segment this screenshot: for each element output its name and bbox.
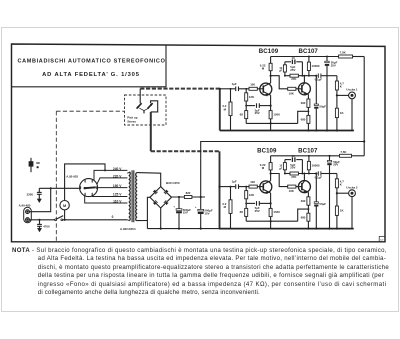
piezo element left <box>137 103 142 108</box>
node: divider mid 1 <box>245 105 247 107</box>
wire: motor top to 240V tap <box>65 164 105 201</box>
svg-text:25V: 25V <box>290 166 295 170</box>
svg-text:25V: 25V <box>331 63 336 67</box>
svg-text:100: 100 <box>250 180 255 184</box>
selector tap wire 110V <box>85 195 128 203</box>
resistor 0.22M 2 <box>269 163 272 170</box>
selector tap wire 220V <box>97 178 128 184</box>
resistor 1500 2 <box>270 193 272 208</box>
svg-text:B30 C250: B30 C250 <box>166 181 180 185</box>
svg-text:CAMBIADISCHI AUTOMATICO STEREO: CAMBIADISCHI AUTOMATICO STEREOFONICO <box>17 59 165 65</box>
pick-up stereo dashed box <box>125 95 167 125</box>
svg-text:25V: 25V <box>255 111 260 115</box>
fuse / suppressor symbol <box>30 158 32 172</box>
resistor 10K interstage 2 <box>288 185 296 188</box>
node: emitter divider mid 2 <box>307 205 309 213</box>
resistor 2.2M 1 <box>230 88 232 90</box>
shielded cable to channel 1 (dashed thick) <box>140 88 220 90</box>
svg-text:1K: 1K <box>340 209 345 213</box>
wire: bridge + output <box>172 196 206 198</box>
mains switch <box>55 219 57 221</box>
node: BC109 collector 2 <box>270 174 272 181</box>
selector tap wire 240V <box>94 170 127 181</box>
wire: mains top run <box>39 187 78 189</box>
record-changer unit boundary (dash-dot) <box>56 110 124 112</box>
svg-text:68: 68 <box>240 210 244 214</box>
resistor 100 1 <box>249 87 257 90</box>
svg-text:50µF: 50µF <box>319 202 326 206</box>
supply rail 1 <box>271 56 339 58</box>
node: input junction 1 <box>219 88 221 90</box>
svg-text:BC109: BC109 <box>259 48 279 55</box>
resistor 10K interstage 1 <box>288 87 296 90</box>
wire: emitter mid to network 2 <box>298 209 309 221</box>
svg-text:25V: 25V <box>333 163 338 167</box>
svg-text:Uscita 1: Uscita 1 <box>346 88 357 92</box>
resistor 68 1 <box>245 111 248 119</box>
resistor 4.7K output divider 1 <box>336 76 338 81</box>
node: base divider tap 1 <box>245 88 247 90</box>
wire: output socket ground 1 <box>351 99 353 131</box>
svg-text:27K: 27K <box>291 77 297 81</box>
capacitor 50uF 25V rail 1 <box>326 56 328 58</box>
wire: BC107 collector 1 <box>303 76 305 84</box>
node: input junction 2 <box>218 186 220 188</box>
resistor 100 2 <box>249 185 257 188</box>
capacitor 1uF 1 <box>235 87 237 92</box>
svg-text:220 V: 220 V <box>113 175 122 179</box>
svg-text:12K: 12K <box>249 95 255 99</box>
wire: to output socket 1 <box>337 94 349 96</box>
wire: input line 1 <box>220 88 235 90</box>
capacitor 50uF emitter area 2 <box>315 172 317 174</box>
svg-text:25V: 25V <box>255 209 260 213</box>
filter capacitor 500uF 15V (1) <box>178 196 180 198</box>
wire: secondary bottom to bridge left <box>137 197 150 220</box>
mains plug A.90-485 <box>24 207 32 222</box>
resistor 680 emitter 1 <box>307 115 310 123</box>
selector tap wire 125V <box>92 195 127 196</box>
wire: collector bus 1 <box>285 75 290 77</box>
svg-text:10K: 10K <box>289 91 295 95</box>
svg-text:µF: µF <box>279 70 282 73</box>
svg-text:7,5K: 7,5K <box>340 150 347 154</box>
wire: input line 2 <box>220 186 236 188</box>
wire: mains to selector <box>79 187 80 189</box>
wire: cap to resistor 100 1 <box>239 88 250 90</box>
capacitor 50uF 25V rail 2 <box>329 155 331 157</box>
resistor 1500 1 <box>270 95 272 110</box>
wire: cap to resistor 100 2 <box>239 186 250 188</box>
capacitor 2200 to ground <box>38 188 40 192</box>
transformer secondary <box>135 173 138 221</box>
resistor 12K 1 <box>245 89 247 93</box>
wire: emitter mid to network 1 <box>298 111 309 123</box>
svg-text:1500: 1500 <box>273 112 280 116</box>
wire: BC107 collector 2 <box>303 174 305 182</box>
svg-text:25V: 25V <box>290 68 295 72</box>
capacitor 10 feedback 1 <box>285 61 291 63</box>
capacitor 10 feedback 2 <box>285 159 291 161</box>
schematic border frame <box>12 44 386 242</box>
svg-text:BC107: BC107 <box>298 48 318 55</box>
capacitor 5uF 25V 2 <box>246 202 255 204</box>
output socket Uscita 2 <box>349 190 356 197</box>
svg-text:1µF: 1µF <box>232 82 237 86</box>
capacitor 0.1uF coupling 1 <box>317 74 319 78</box>
title box <box>12 45 167 87</box>
node: base divider tap 2 <box>245 186 247 188</box>
resistor 4.7K output divider 2 <box>336 174 338 179</box>
supply riser from filter to rails <box>201 142 365 210</box>
svg-text:7,5K: 7,5K <box>340 51 347 55</box>
svg-text:100: 100 <box>250 82 255 86</box>
transistor BC109 1 <box>260 83 272 95</box>
wire: output socket ground 2 <box>351 197 353 229</box>
feedback network box 1 <box>284 62 286 65</box>
capacitor 5uF 25V 1 <box>246 105 255 107</box>
transistor BC109 2 <box>260 181 272 193</box>
wire: plug bottom pin to switch <box>29 219 54 221</box>
node: emitter divider mid 1 <box>307 107 309 115</box>
wire: switch to transformer 0 tap <box>63 219 128 221</box>
voltage selector A.92-925 <box>80 179 98 197</box>
resistor 27K feedback 2 <box>290 172 298 175</box>
svg-text:A.90-485: A.90-485 <box>19 203 31 207</box>
svg-text:A.92-925: A.92-925 <box>66 174 78 178</box>
svg-text:680: 680 <box>301 118 306 122</box>
wire: secondary bottom to ground bus <box>146 220 148 228</box>
wire: secondary top to bridge <box>137 173 161 187</box>
resistor 27K feedback 1 <box>290 74 298 77</box>
corner reference box C.7 <box>379 236 385 241</box>
feedback network box 2 <box>284 160 286 163</box>
svg-text:110 V: 110 V <box>113 199 122 203</box>
transistor BC107 1 <box>298 83 310 95</box>
svg-text:10K: 10K <box>289 189 295 193</box>
piezo element right <box>148 103 153 108</box>
svg-text:15V: 15V <box>204 211 209 215</box>
svg-text:+: + <box>195 205 197 209</box>
svg-text:Stereo: Stereo <box>127 120 136 124</box>
capacitor 1uF 2 <box>235 184 237 189</box>
resistor 7.5K supply 2 <box>340 154 352 157</box>
resistor 12K 2 <box>245 187 247 191</box>
wire: emitter network bottom 2 <box>246 220 298 222</box>
node: supply tee <box>363 140 365 142</box>
svg-text:125 V: 125 V <box>113 193 122 197</box>
resistor 68 2 <box>245 208 248 216</box>
transformer A.90/10454 primary <box>128 172 131 221</box>
resistor 680 emitter 2 <box>307 213 310 221</box>
motor M <box>60 201 69 210</box>
svg-text:4700: 4700 <box>43 225 50 229</box>
resistor 0.22M 1 <box>269 63 272 70</box>
svg-text:50µF: 50µF <box>319 104 326 108</box>
wire: bridge - to ground bus <box>160 208 162 229</box>
node: mains top <box>50 187 52 189</box>
svg-text:µF: µF <box>279 167 282 170</box>
channel 2 / main ground bus <box>147 228 218 230</box>
svg-text:0: 0 <box>112 215 114 219</box>
node: BC109 collector 1 <box>270 76 272 83</box>
common stylus point <box>139 108 148 110</box>
svg-text:820: 820 <box>186 191 191 195</box>
wire: right element loop to cable 2 <box>151 101 158 112</box>
channel 1 ground bus <box>220 130 354 132</box>
svg-text:10000: 10000 <box>312 64 320 68</box>
wire: plug top pin riser <box>29 188 50 211</box>
svg-text:+: + <box>173 204 175 208</box>
svg-text:2200: 2200 <box>27 192 34 196</box>
capacitor 0.1uF coupling 2 <box>317 171 319 175</box>
cable 1 shield drop to ground <box>219 89 221 131</box>
selector tap wire 160V <box>98 187 128 189</box>
svg-text:680: 680 <box>301 215 306 219</box>
wire: emitter network bottom 1 <box>246 122 298 124</box>
node: divider mid 2 <box>245 202 247 204</box>
filter capacitor 500uF 15V (2) <box>200 196 202 198</box>
wire: to output socket 2 <box>337 192 349 194</box>
wire: to BC109 base 1 <box>257 88 263 90</box>
svg-text:390: 390 <box>301 199 306 203</box>
capacitor 4700 to ground <box>39 220 41 224</box>
svg-text:12K: 12K <box>249 193 255 197</box>
capacitor 50uF emitter area 1 <box>315 75 317 77</box>
svg-text:390: 390 <box>301 101 306 105</box>
svg-text:BC109: BC109 <box>257 147 277 154</box>
resistor 7.5K supply 1 <box>339 55 353 58</box>
svg-text:1µF: 1µF <box>232 180 237 184</box>
selector pins <box>84 180 86 183</box>
supply vertical to both channel rails <box>363 57 365 156</box>
resistor 820 <box>184 196 192 199</box>
selector wiper <box>84 186 95 189</box>
wire: left element to cable 1 <box>139 89 141 104</box>
resistor 1K 2 <box>335 206 338 215</box>
resistor 390 emitter 2 <box>307 192 309 197</box>
resistor 1K 1 <box>335 108 338 117</box>
resistor 10000 2 <box>307 161 310 169</box>
svg-text:15V: 15V <box>183 211 188 215</box>
node: output tap 2 <box>336 192 338 194</box>
supply rail 2 <box>271 155 340 157</box>
transformer core <box>131 170 133 222</box>
wire: motor bottom <box>64 210 66 220</box>
resistor 10000 1 <box>307 62 310 70</box>
svg-text:AD ALTA FEDELTA’ G. 1/305: AD ALTA FEDELTA’ G. 1/305 <box>42 72 140 78</box>
wire: collector to interstage 2 <box>271 174 288 187</box>
svg-text:27K: 27K <box>291 175 297 179</box>
node: output tap 1 <box>336 94 338 96</box>
svg-text:160 V: 160 V <box>113 184 122 188</box>
resistor 2.2M 2 <box>230 186 232 188</box>
svg-text:1500: 1500 <box>273 210 280 214</box>
bridge rectifier B30 C250 <box>150 187 172 208</box>
svg-text:A.90/10454: A.90/10454 <box>120 227 136 231</box>
svg-text:Uscita 2: Uscita 2 <box>346 185 357 189</box>
NOTA paragraph <box>12 248 387 254</box>
node: 4700 tap <box>38 219 40 221</box>
wire: collector bus 2 <box>285 173 290 175</box>
output socket Uscita 1 <box>349 92 356 99</box>
svg-text:BC107: BC107 <box>298 147 318 154</box>
svg-text:M: M <box>63 204 66 208</box>
svg-text:1K: 1K <box>340 111 345 115</box>
wire: collector to interstage 1 <box>271 76 288 89</box>
transistor BC107 2 <box>298 181 310 193</box>
wire: to BC109 base 2 <box>257 186 263 188</box>
svg-text:10000: 10000 <box>312 163 320 167</box>
svg-text:68: 68 <box>240 112 244 116</box>
svg-text:240 V: 240 V <box>113 167 122 171</box>
shielded cable to channel 2 (thick, dashed) <box>150 112 152 151</box>
resistor 390 emitter 1 <box>307 94 309 99</box>
